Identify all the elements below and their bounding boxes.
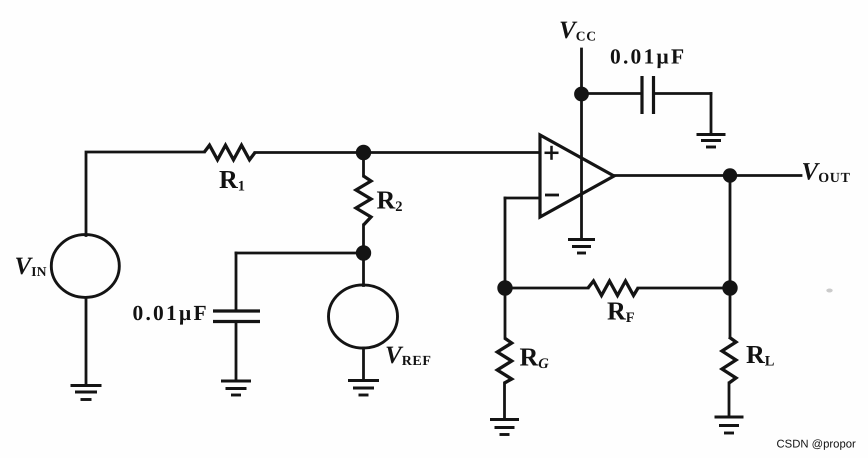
svg-text:RF: RF	[607, 297, 635, 327]
svg-text:0.01µF: 0.01µF	[610, 44, 686, 68]
svg-text:VREF: VREF	[385, 342, 432, 369]
svg-text:VCC: VCC	[559, 17, 597, 44]
svg-text:RG: RG	[520, 342, 550, 372]
svg-text:VIN: VIN	[15, 253, 47, 280]
svg-text:VOUT: VOUT	[802, 159, 851, 187]
svg-text:CSDN @propor: CSDN @propor	[777, 438, 857, 450]
svg-text:R2: R2	[377, 186, 403, 216]
svg-text:0.01µF: 0.01µF	[133, 301, 209, 325]
svg-text:R1: R1	[219, 165, 245, 195]
svg-text:RL: RL	[746, 340, 775, 370]
